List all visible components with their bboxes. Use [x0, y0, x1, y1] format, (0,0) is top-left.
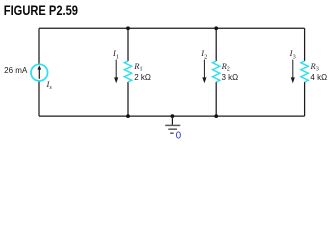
svg-text:1: 1 — [116, 54, 119, 61]
svg-text:3: 3 — [293, 54, 296, 61]
svg-text:0: 0 — [176, 130, 182, 141]
svg-text:3 kΩ: 3 kΩ — [222, 73, 239, 82]
svg-text:2: 2 — [204, 54, 207, 61]
svg-text:3: 3 — [316, 66, 319, 73]
svg-text:26 mA: 26 mA — [4, 66, 28, 75]
svg-text:2 kΩ: 2 kΩ — [134, 73, 151, 82]
svg-text:4 kΩ: 4 kΩ — [310, 73, 327, 82]
svg-text:2: 2 — [227, 66, 230, 73]
svg-text:FIGURE P2.59: FIGURE P2.59 — [4, 2, 78, 18]
svg-text:1: 1 — [140, 66, 143, 73]
